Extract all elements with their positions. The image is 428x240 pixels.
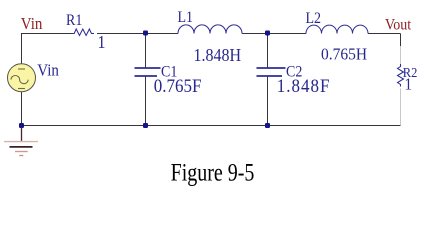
svg-text:1: 1 <box>405 76 412 94</box>
svg-text:1: 1 <box>98 32 106 52</box>
svg-text:0.765F: 0.765F <box>154 75 202 96</box>
svg-text:Vin: Vin <box>21 15 43 33</box>
svg-text:Vout: Vout <box>385 17 411 34</box>
svg-text:L2: L2 <box>306 10 322 27</box>
svg-text:L1: L1 <box>178 9 194 26</box>
svg-text:1.848F: 1.848F <box>277 75 331 96</box>
svg-text:Figure 9-5: Figure 9-5 <box>171 159 255 187</box>
svg-text:Vin: Vin <box>37 62 59 80</box>
svg-text:1.848H: 1.848H <box>194 45 242 65</box>
svg-text:0.765H: 0.765H <box>321 44 367 64</box>
svg-text:R1: R1 <box>66 12 82 29</box>
